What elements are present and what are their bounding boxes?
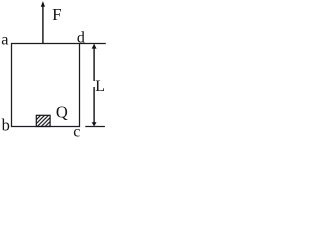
svg-text:L: L [95,77,105,95]
svg-text:d: d [77,29,85,46]
svg-text:a: a [1,30,8,49]
svg-text:b: b [2,116,10,135]
svg-text:Q: Q [56,103,68,122]
svg-text:c: c [73,124,80,137]
svg-text:F: F [52,5,61,24]
